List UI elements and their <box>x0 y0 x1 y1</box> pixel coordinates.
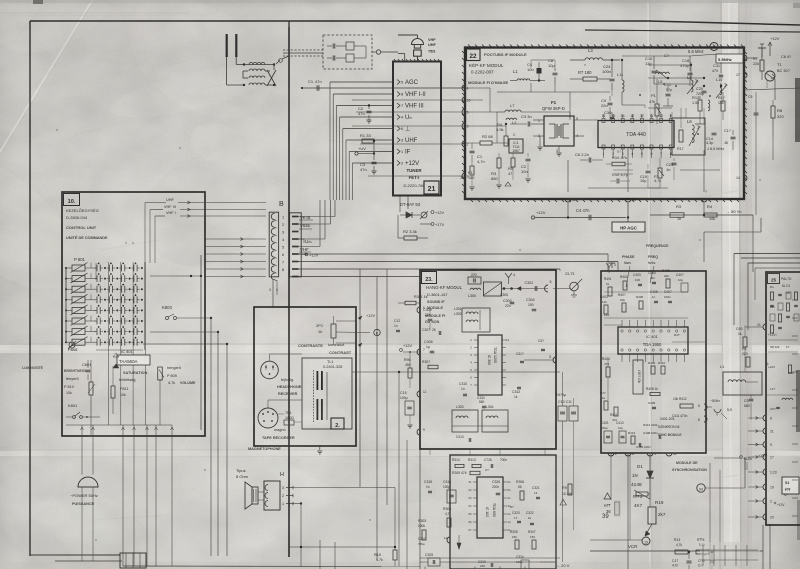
svg-text:S?: S? <box>784 493 788 497</box>
